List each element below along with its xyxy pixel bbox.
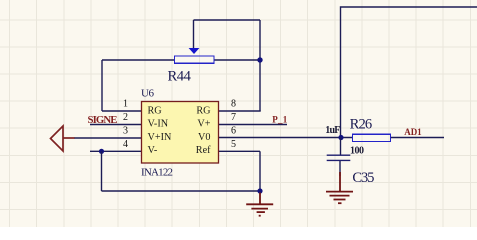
- svg-text:R26: R26: [350, 117, 373, 133]
- ground under C35: [326, 172, 353, 203]
- svg-text:100: 100: [350, 146, 364, 157]
- wire C35 bottom lead: [339, 161, 341, 176]
- wire pin 5 down to ground node: [259, 151, 261, 191]
- resistor R26 body: [353, 134, 391, 141]
- svg-text:U6: U6: [141, 88, 155, 100]
- capacitor C35 plates: [327, 155, 351, 160]
- wire bottom loop vertical: [101, 151, 103, 191]
- svg-text:RG: RG: [196, 105, 211, 116]
- svg-text:R44: R44: [168, 68, 192, 84]
- junction on pin 4 wire: [99, 149, 104, 154]
- wire R44 wiper vertical: [193, 20, 195, 49]
- wire left vertical to pin 1: [101, 60, 103, 111]
- svg-text:5: 5: [231, 139, 236, 150]
- svg-text:P_1: P_1: [272, 114, 288, 124]
- potentiometer R44 body: [175, 56, 215, 63]
- wire vertical right of R44: [259, 20, 261, 60]
- svg-text:AD1: AD1: [404, 127, 422, 137]
- wire pin 8: [219, 110, 261, 112]
- wire pin 3 from input port: [74, 137, 141, 139]
- wire pin 4: [90, 150, 141, 152]
- svg-text:6: 6: [231, 126, 236, 137]
- potentiometer R44 wiper arrow: [189, 48, 200, 54]
- wire R44 left: [102, 59, 174, 61]
- junction at C35/R26 node: [338, 135, 343, 140]
- wire bottom loop horizontal: [102, 190, 261, 192]
- wire pin 2 SIGNE: [90, 124, 141, 126]
- wire pin 6 output to R26: [219, 137, 352, 139]
- IC U6 body: [142, 102, 219, 164]
- svg-text:Ref: Ref: [196, 145, 211, 156]
- svg-text:1: 1: [123, 99, 128, 110]
- wire R26 right to AD1: [390, 137, 444, 139]
- svg-text:7: 7: [231, 112, 236, 123]
- wire pin 7 P_1: [219, 124, 287, 126]
- svg-text:V+IN: V+IN: [148, 132, 172, 143]
- junction at ground node: [257, 188, 262, 193]
- svg-text:RG: RG: [148, 105, 163, 116]
- svg-text:SIGNE: SIGNE: [88, 114, 118, 126]
- wire top of R44 wiper: [194, 19, 261, 21]
- svg-text:INA122: INA122: [141, 167, 173, 179]
- wire pin 1: [102, 110, 141, 112]
- wire vertical to pin 8: [259, 60, 261, 111]
- svg-text:C35: C35: [352, 170, 374, 186]
- svg-text:V0: V0: [198, 132, 210, 143]
- wire top right feed: [341, 7, 477, 138]
- wire pin 5 Ref: [219, 150, 260, 152]
- svg-text:1uF: 1uF: [325, 125, 340, 136]
- svg-text:3: 3: [123, 126, 128, 137]
- junction at R44 right: [257, 57, 262, 62]
- svg-text:4: 4: [123, 139, 128, 150]
- svg-text:V-IN: V-IN: [148, 119, 169, 130]
- svg-text:V+: V+: [197, 119, 210, 130]
- wire R44 right: [214, 59, 260, 61]
- svg-text:8: 8: [231, 99, 236, 110]
- svg-text:2: 2: [123, 112, 128, 123]
- input port arrow SIGNE: [51, 126, 75, 151]
- ground at Ref node: [246, 193, 273, 216]
- svg-text:V-: V-: [148, 145, 158, 156]
- wire C35 top lead: [340, 138, 342, 156]
